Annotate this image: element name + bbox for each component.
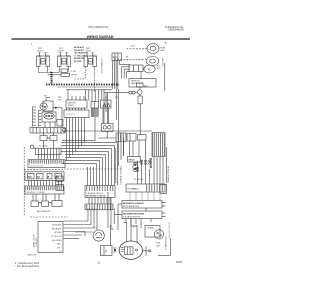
svg-text:LIGHT SWITCH: LIGHT SWITCH <box>102 58 104 73</box>
right bus verticals <box>116 89 123 166</box>
ice maker heater box <box>42 112 56 122</box>
svg-text:COMPRESSOR: COMPRESSOR <box>166 236 168 250</box>
title WIRING DIAGRAM <box>87 35 114 39</box>
drop labels <box>105 97 119 99</box>
svg-text:YL YELLOW: YL YELLOW <box>51 236 62 238</box>
right edge box <box>160 185 167 194</box>
bundle elbows to auger box <box>120 65 131 79</box>
svg-text:P/N 240363704: P/N 240363704 <box>89 25 109 29</box>
svg-text:LIGHT: LIGHT <box>85 51 92 53</box>
wire bus under lights <box>38 71 61 75</box>
tick below rule right <box>165 42 167 44</box>
heater comb right <box>39 110 42 127</box>
svg-text:B: B <box>48 176 50 179</box>
vertical label fan <box>162 57 165 67</box>
harness block hatched <box>152 133 165 157</box>
right edge wire <box>166 147 168 183</box>
run capacitor circle <box>93 230 104 241</box>
terminal board box <box>64 108 89 118</box>
ice maker label <box>44 96 47 98</box>
svg-text:YL YELLOW: YL YELLOW <box>74 55 85 57</box>
svg-text:GUARD: GUARD <box>147 227 154 230</box>
timer top pins <box>68 89 84 100</box>
dashed separator <box>24 169 64 171</box>
relay box drops <box>103 108 109 124</box>
fan group right edge wire <box>164 63 166 91</box>
wire from L1 <box>38 67 48 73</box>
connector strip RA <box>122 201 162 209</box>
svg-text:BR BROWN: BR BROWN <box>74 58 85 60</box>
right fanout verticals <box>138 140 150 184</box>
defrost timer box <box>66 100 87 108</box>
wire colour code list <box>74 46 86 63</box>
staircase bus <box>61 143 118 186</box>
svg-text:MTR: MTR <box>58 100 63 102</box>
svg-text:BK BLACK: BK BLACK <box>52 224 62 227</box>
strip S1 label <box>39 146 48 148</box>
dashed run mid <box>64 168 120 170</box>
condenser unit box <box>145 226 160 238</box>
svg-text:TM DF HT LT CM FN: TM DF HT LT CM FN <box>27 192 45 194</box>
svg-text:CONTROL HOUSING: CONTROL HOUSING <box>121 165 123 185</box>
harness stub box right <box>91 102 99 109</box>
svg-text:AND ENERGY: AND ENERGY <box>37 210 51 213</box>
svg-text:12 11 10 9 8 7 6 5: 12 11 10 9 8 7 6 5 <box>123 206 140 208</box>
harness line 2 <box>57 86 112 88</box>
svg-text:DR SW: DR SW <box>71 75 78 77</box>
footer date <box>176 260 183 264</box>
svg-text:RUN: RUN <box>156 243 161 245</box>
svg-text:1 2 3 4 5 6 7 8 9 0 1: 1 2 3 4 5 6 7 8 9 0 1 <box>86 192 103 195</box>
inline connector bar (multi pin) <box>50 72 52 84</box>
header rule <box>12 38 191 40</box>
svg-text:1 2 3 4 5 6 7 8 9 10: 1 2 3 4 5 6 7 8 9 10 <box>123 216 141 219</box>
connector strip R1 <box>126 184 165 192</box>
svg-text:GUARD HTR BK-40: GUARD HTR BK-40 <box>167 166 170 183</box>
RA right ticks <box>162 203 166 207</box>
harness bundle <box>113 61 120 89</box>
wire from L2 <box>59 67 68 73</box>
svg-text:LT SW: LT SW <box>70 71 76 73</box>
defrost heater box <box>129 79 156 88</box>
bottom feed bends <box>64 209 98 239</box>
svg-text:ADC: ADC <box>113 56 118 59</box>
svg-text:BK WH RD YL BR GN: BK WH RD YL BR GN <box>86 196 106 198</box>
strip S1 pilot circle <box>30 145 33 148</box>
wire from L3 <box>74 67 95 93</box>
auger to heater wire <box>140 72 142 79</box>
svg-text:WH WHITE: WH WHITE <box>74 50 85 52</box>
ice maker plug strip <box>30 128 65 134</box>
control row label <box>37 210 51 213</box>
small relay boxes mid <box>56 176 64 191</box>
dashed drops below R1 <box>130 192 160 200</box>
relay box with diodes <box>101 100 112 108</box>
harness line 3 with plug <box>104 91 137 94</box>
aux box drop wires <box>124 140 140 157</box>
R1 top labels <box>134 179 144 181</box>
control strip S3 <box>25 172 64 181</box>
svg-text:SW 40: SW 40 <box>129 159 136 162</box>
svg-text:LIGHT: LIGHT <box>37 51 44 53</box>
svg-text:C O N D E N S E R: C O N D E N S E R <box>169 222 171 238</box>
header publication number <box>165 25 184 32</box>
thermostat oval <box>133 162 138 171</box>
rotated harness label <box>121 165 123 185</box>
lamp L3 (refrigerator light socket) <box>84 53 97 67</box>
footer page number <box>97 260 100 264</box>
svg-text:# - Fast-Recovery Parts: # - Fast-Recovery Parts <box>15 262 40 265</box>
legend table rows <box>51 224 62 253</box>
strip end pin <box>63 128 66 131</box>
thermal cutout <box>138 96 142 135</box>
vertical label LIGHT CIRCUIT <box>102 58 104 73</box>
defrost thermostat <box>102 124 114 132</box>
right rotated label <box>167 166 170 183</box>
svg-text:1 0: 1 0 <box>59 251 62 253</box>
heater comb left <box>33 107 36 127</box>
svg-text:F: F <box>105 250 107 254</box>
dashed wire to evap fan <box>127 48 148 50</box>
svg-text:GN GREEN: GN GREEN <box>51 240 62 242</box>
svg-text:BKWHRDYLORBNGY: BKWHRDYLORBNGY <box>123 203 145 205</box>
RB right ticks <box>162 213 166 217</box>
svg-text:ADC: ADC <box>144 85 149 88</box>
legend caption <box>27 254 37 257</box>
evaporator fan motor circle <box>147 44 159 54</box>
relay overload box <box>101 246 113 256</box>
ice maker motor box <box>43 98 53 112</box>
svg-text:WH WHITE: WH WHITE <box>52 228 63 230</box>
harness header box <box>112 53 122 61</box>
bus drop pins <box>86 90 102 102</box>
vertical drop wires <box>104 89 108 123</box>
ice maker motor winding <box>44 113 54 119</box>
harness bead bus <box>46 84 119 86</box>
ice maker motor circle <box>40 103 47 110</box>
wires into compressor <box>75 220 137 246</box>
relay pins <box>113 248 117 252</box>
svg-text:CODE LIST: CODE LIST <box>36 236 38 247</box>
switch box mid right <box>128 157 141 163</box>
svg-text:MTR: MTR <box>157 68 162 70</box>
svg-text:CAUTION: CAUTION <box>27 254 37 257</box>
svg-text:* - Non-Illuminated Parts: * - Non-Illuminated Parts <box>14 265 40 268</box>
interconnect wires S1-S2 <box>39 155 60 160</box>
compressor internal marks <box>121 248 138 252</box>
svg-text:BK BLACK: BK BLACK <box>74 46 85 49</box>
strip S3 text <box>28 176 59 179</box>
svg-text:OR 2: OR 2 <box>57 247 61 249</box>
fan 1 side text <box>161 47 166 53</box>
RA RB left wires <box>108 192 122 230</box>
light switch boxes <box>61 69 70 76</box>
C1 pin labels <box>86 192 106 198</box>
control switch row <box>31 201 62 207</box>
svg-text:1 2 3 4 5 6: 1 2 3 4 5 6 <box>66 114 75 116</box>
block output wires <box>154 157 163 185</box>
lamp L2 label <box>58 48 65 53</box>
svg-text:BUGNBRTNPKWHBK: BUGNBRTNPKWHBK <box>123 213 145 215</box>
harness line 3 <box>66 89 112 91</box>
bead column <box>150 158 152 168</box>
bundle drop <box>94 117 96 141</box>
icemaker link wire <box>53 107 62 127</box>
connector strip C1 <box>85 186 115 198</box>
ground return wire <box>146 238 170 256</box>
timer fanout drops <box>67 118 85 161</box>
svg-text:5995346003: 5995346003 <box>168 28 184 32</box>
dash label L1 <box>130 45 136 47</box>
svg-text:RD RED: RD RED <box>74 61 82 63</box>
wire bundle hatch <box>92 108 99 117</box>
compressor windings box <box>125 247 134 255</box>
footer legend <box>14 262 40 268</box>
defrost thermostat bead <box>138 87 143 96</box>
switch row to S1 wires <box>44 141 54 149</box>
dashed separator 2 <box>30 216 68 218</box>
dashed wire to cond fan <box>114 59 146 61</box>
svg-text:05/03: 05/03 <box>176 260 183 264</box>
svg-text:BH: BH <box>28 176 32 179</box>
RA RB drop wires <box>123 208 151 228</box>
ice maker drop wires <box>45 122 55 128</box>
connector strip C2 <box>85 204 113 210</box>
auger side text <box>157 65 162 71</box>
connector strip S2 <box>28 160 65 168</box>
svg-text:RD RED: RD RED <box>54 232 62 234</box>
mold heater box <box>57 120 63 127</box>
connector strip RB <box>122 211 162 219</box>
svg-text:BK WH OR: BK WH OR <box>134 179 144 181</box>
wire tag labels <box>94 224 136 230</box>
small box top right of harness <box>137 83 144 87</box>
svg-text:BR 1: BR 1 <box>57 244 61 246</box>
thermostat wires <box>62 131 152 183</box>
svg-text:HEATER 120V: HEATER 120V <box>131 82 144 85</box>
dash label L2 <box>126 57 129 59</box>
node marker left <box>31 43 33 46</box>
svg-text:DEFROST: DEFROST <box>68 102 78 104</box>
svg-text:TIMER: TIMER <box>68 105 75 107</box>
rotated compressor label <box>166 236 168 250</box>
junction box small <box>107 132 126 142</box>
lamp L3 label <box>85 48 92 53</box>
lamp L1 label <box>37 48 44 53</box>
condenser motor circle <box>154 230 163 239</box>
compressor right lead <box>142 250 150 252</box>
condenser fan motor circle <box>146 57 159 66</box>
vertical label right side <box>169 222 171 238</box>
inline plug beads <box>137 160 151 171</box>
mid small switch boxes <box>40 133 57 141</box>
legend vertical label <box>34 234 39 247</box>
lamp L1 (freezer light socket) <box>37 53 50 67</box>
auger motor M <box>144 65 155 73</box>
S4 to switches wires <box>33 194 59 201</box>
console dashed border left <box>23 147 25 216</box>
svg-text:LIGHT: LIGHT <box>58 51 65 53</box>
auger terminal box <box>129 65 143 72</box>
connector strip S4 <box>25 186 64 194</box>
aux boxes row <box>127 134 146 142</box>
lamp L2 (freezer light socket) <box>58 53 71 67</box>
svg-text:COND FAN: COND FAN <box>162 57 165 67</box>
header part number <box>89 25 109 29</box>
condenser labels <box>156 243 161 248</box>
legend table box <box>38 222 63 253</box>
svg-text:L1 BK: L1 BK <box>130 45 136 47</box>
connector strip S1 <box>36 148 62 155</box>
S3-S4 pins <box>29 180 62 186</box>
timer left label <box>58 97 63 101</box>
svg-text:P1 CONN 10: P1 CONN 10 <box>128 188 139 190</box>
C1-C2 pins <box>89 198 110 205</box>
svg-text:21: 21 <box>97 260 100 264</box>
compressor shell <box>119 241 142 259</box>
svg-text:1 2 3 4 5 6 7 8 9: 1 2 3 4 5 6 7 8 9 <box>30 166 44 168</box>
